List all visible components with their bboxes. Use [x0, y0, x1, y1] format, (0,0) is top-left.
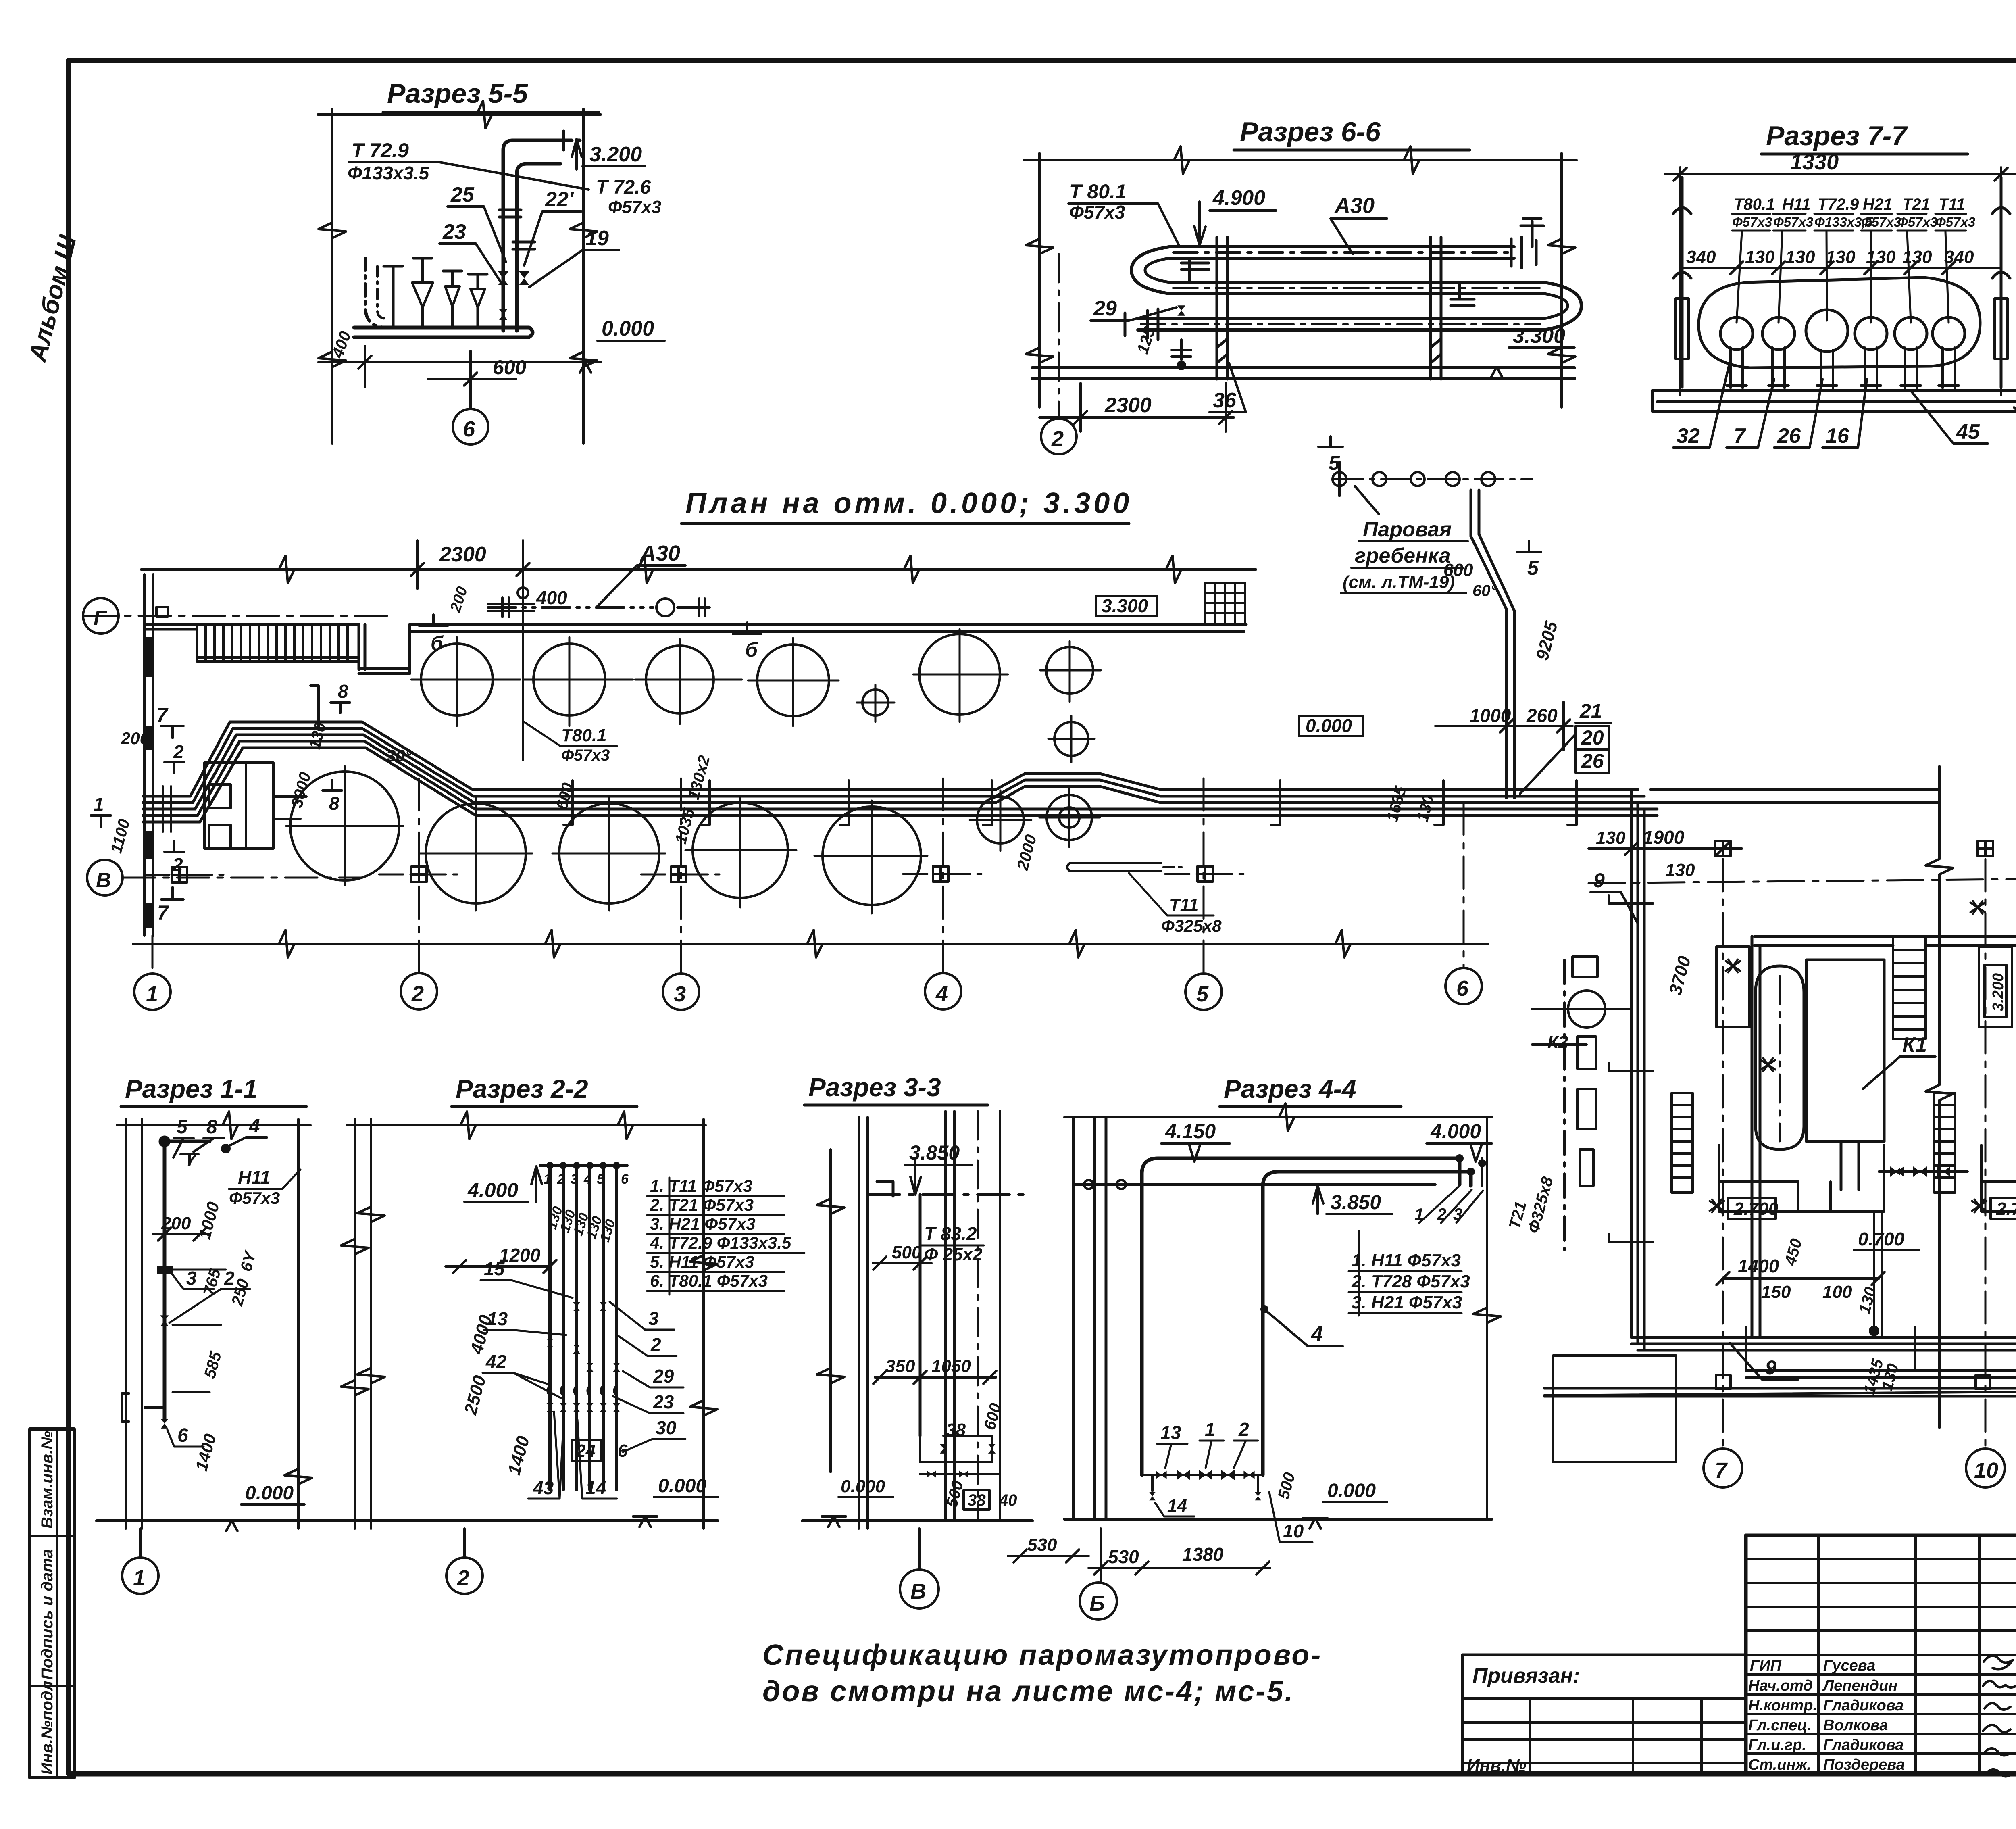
svg-text:2: 2: [557, 1172, 565, 1187]
svg-text:5: 5: [597, 1172, 605, 1187]
svg-text:Ф57х3: Ф57х3: [1897, 215, 1937, 229]
svg-text:4.000: 4.000: [467, 1179, 518, 1201]
svg-text:б: б: [431, 632, 444, 655]
svg-text:8: 8: [329, 793, 339, 814]
svg-text:Разрез 5-5: Разрез 5-5: [387, 78, 528, 109]
svg-text:3.200: 3.200: [1990, 973, 2007, 1011]
svg-text:585: 585: [201, 1349, 225, 1381]
svg-text:4.000: 4.000: [1430, 1120, 1481, 1143]
svg-text:19: 19: [585, 227, 609, 250]
svg-text:6: 6: [1456, 976, 1469, 1001]
svg-text:30°: 30°: [386, 746, 412, 765]
svg-text:0.000: 0.000: [658, 1475, 706, 1497]
svg-text:Ф57х3: Ф57х3: [229, 1189, 280, 1208]
svg-text:7: 7: [156, 704, 169, 726]
svg-text:15: 15: [484, 1258, 505, 1279]
svg-text:Ф57х3: Ф57х3: [561, 747, 610, 764]
svg-text:1050: 1050: [931, 1356, 971, 1376]
title block outline: [1746, 1535, 2016, 1774]
svg-text:38: 38: [968, 1491, 986, 1509]
top wall of plan (3.300 deck edge): [145, 624, 1246, 674]
svg-text:2000: 2000: [1014, 833, 1040, 872]
svg-text:0.000: 0.000: [841, 1477, 885, 1496]
svg-text:13: 13: [487, 1308, 508, 1329]
narrow revision table grid: [1746, 1535, 2016, 1774]
svg-text:1400: 1400: [504, 1434, 533, 1477]
pipe drop s3: [919, 1195, 922, 1436]
bottom leader labels: [1677, 418, 2016, 448]
svg-text:Нач.отд: Нач.отд: [1748, 1677, 1813, 1694]
valves on risers 2-2: [573, 1302, 580, 1311]
svg-text:1330: 1330: [1790, 150, 1839, 174]
svg-text:1. Т11 Ф57х3: 1. Т11 Ф57х3: [650, 1176, 752, 1195]
band support ticks: [310, 686, 1577, 825]
svg-text:Волкова: Волкова: [1823, 1717, 1888, 1734]
svg-text:Т 83.2: Т 83.2: [924, 1223, 977, 1244]
svg-text:4: 4: [249, 1116, 260, 1137]
svg-text:Ф325х8: Ф325х8: [1161, 916, 1222, 935]
svg-text:Ф57х3: Ф57х3: [1935, 215, 1975, 229]
svg-text:4.900: 4.900: [1212, 186, 1265, 210]
heat exchanger pipe run 3 (bottom): [1138, 319, 1544, 330]
leaders from labels to circles: [1737, 232, 1949, 323]
svg-text:2: 2: [411, 982, 424, 1006]
svg-text:43: 43: [533, 1477, 554, 1498]
svg-text:16: 16: [1826, 424, 1849, 448]
svg-text:23: 23: [653, 1391, 674, 1412]
svg-text:Альбом Ш: Альбом Ш: [23, 232, 82, 365]
svg-text:22': 22': [545, 188, 574, 211]
boiler 1 burner valves: [1890, 1168, 1900, 1176]
svg-text:14: 14: [1167, 1496, 1187, 1516]
svg-text:3000: 3000: [288, 770, 314, 809]
standpipe valves on manifold: [384, 258, 487, 327]
svg-text:9: 9: [1593, 869, 1605, 892]
hanger squares row B: [1715, 841, 1731, 856]
ladder hatch left of boiler1: [1672, 1093, 1693, 1193]
svg-text:3: 3: [571, 1172, 578, 1187]
svg-text:450: 450: [1781, 1237, 1806, 1268]
svg-text:Т80.1: Т80.1: [561, 726, 607, 745]
svg-text:7: 7: [186, 1150, 197, 1170]
svg-text:Т21: Т21: [1902, 196, 1930, 213]
svg-text:Подпись и дата: Подпись и дата: [38, 1549, 56, 1680]
grid circle 2: [1058, 254, 1060, 419]
boiler 1 drum: [1756, 966, 1804, 1149]
svg-text:130: 130: [1902, 247, 1932, 267]
manifold oval: [1699, 277, 1980, 368]
side rect with hatch (boiler1): [1716, 947, 1749, 1027]
svg-text:4: 4: [1311, 1322, 1323, 1346]
bottom manifold pipe: [354, 327, 533, 337]
responsible persons rows: [1748, 1657, 1905, 1773]
svg-text:Т11: Т11: [1939, 196, 1965, 213]
svg-text:7: 7: [1734, 424, 1746, 448]
svg-text:350: 350: [885, 1356, 915, 1376]
svg-text:К1: К1: [1902, 1033, 1927, 1057]
svg-text:5: 5: [1196, 982, 1209, 1006]
hanger rods: [1673, 177, 2010, 387]
svg-text:6: 6: [463, 417, 475, 441]
svg-text:3: 3: [186, 1268, 197, 1289]
row A and bottom walls: [1544, 1389, 2016, 1395]
boiler 1 platform: [1719, 1145, 1884, 1212]
svg-text:600: 600: [1443, 560, 1473, 580]
big П pipe: [1142, 1158, 1482, 1475]
svg-text:Разрез 7-7: Разрез 7-7: [1766, 121, 1908, 151]
svg-text:4: 4: [935, 982, 948, 1006]
descending pipe band: [1631, 790, 2016, 1350]
svg-text:7: 7: [1715, 1458, 1728, 1483]
svg-text:Взам.инв.№: Взам.инв.№: [38, 1431, 56, 1529]
svg-text:1400: 1400: [192, 1432, 220, 1473]
svg-text:3. Н21 Ф57х3: 3. Н21 Ф57х3: [1352, 1293, 1462, 1312]
svg-text:38: 38: [946, 1420, 966, 1440]
grid columns 7 10 11: [1723, 859, 2016, 1449]
svg-text:3. Н21 Ф57х3: 3. Н21 Ф57х3: [650, 1214, 756, 1233]
heat exchanger pipe run 1 (top): [1169, 247, 1514, 258]
hanger squares on 0.000 row: [172, 867, 187, 882]
svg-text:8: 8: [206, 1116, 217, 1138]
pipe list table 2-2: [650, 1176, 791, 1290]
svg-text:Разрез 4-4: Разрез 4-4: [1224, 1074, 1356, 1103]
main pipe band across plan: [143, 722, 1657, 822]
svg-text:Гладикова: Гладикова: [1823, 1697, 1904, 1714]
dashed inlet elbow: [365, 258, 386, 327]
svg-text:А30: А30: [639, 541, 680, 565]
svg-text:8: 8: [338, 681, 348, 702]
svg-text:Разрез 6-6: Разрез 6-6: [1240, 117, 1381, 147]
svg-text:3.850: 3.850: [909, 1141, 960, 1164]
svg-text:Т11: Т11: [1169, 895, 1199, 915]
riser to steam manifold: [1471, 490, 1514, 798]
svg-text:340: 340: [1944, 247, 1974, 267]
svg-text:Паровая: Паровая: [1363, 518, 1452, 541]
svg-text:4: 4: [583, 1172, 591, 1187]
floor line at 3.300: [1032, 368, 1574, 378]
six risers: [540, 1166, 627, 1490]
hooks row: [548, 1385, 616, 1396]
svg-text:2: 2: [650, 1334, 661, 1355]
svg-text:Т 72.6: Т 72.6: [596, 177, 651, 198]
side rect with hatch and 3.200 (boiler2): [1979, 947, 2012, 1027]
svg-text:В: В: [910, 1579, 926, 1604]
svg-text:2: 2: [172, 854, 183, 875]
grid circle В s3: [918, 1529, 921, 1570]
svg-text:60°: 60°: [1472, 582, 1497, 600]
svg-text:3.300: 3.300: [1513, 324, 1565, 348]
svg-text:Гладикова: Гладикова: [1823, 1737, 1904, 1754]
svg-text:13: 13: [1160, 1422, 1181, 1443]
bottom header row of valves: [1142, 1474, 1263, 1476]
svg-text:4.150: 4.150: [1165, 1120, 1216, 1143]
svg-text:К2: К2: [1547, 1032, 1568, 1052]
boiler room top wall: [1754, 936, 2016, 945]
svg-text:3.850: 3.850: [1331, 1191, 1381, 1214]
svg-text:2: 2: [1238, 1419, 1249, 1440]
svg-text:130: 130: [1856, 1285, 1880, 1316]
svg-text:6: 6: [618, 1441, 628, 1461]
svg-text:130: 130: [1414, 793, 1438, 824]
bottom dimension line of plan: [133, 943, 1488, 945]
svg-text:1400: 1400: [1738, 1255, 1779, 1276]
svg-text:2: 2: [173, 741, 184, 762]
svg-text:Ф57х3: Ф57х3: [608, 197, 661, 217]
svg-text:Ф57х3: Ф57х3: [1773, 215, 1813, 229]
svg-text:0.000: 0.000: [245, 1483, 294, 1504]
left margin stamp column: [30, 1429, 74, 1778]
svg-text:42: 42: [485, 1351, 507, 1372]
bottom-left outbuilding: [1553, 1356, 1676, 1462]
svg-text:Ф57х3: Ф57х3: [1732, 215, 1772, 229]
grid columns and circles 1..6: [152, 778, 1464, 974]
left U-bend: [1131, 247, 1169, 294]
svg-text:Ф133х3.5: Ф133х3.5: [348, 163, 430, 184]
upper pipe assembly on 3.300: [488, 588, 710, 760]
svg-text:23: 23: [442, 220, 466, 244]
stems to beam: [1727, 348, 1959, 388]
svg-text:В: В: [96, 869, 111, 892]
upper row tanks: [421, 634, 1093, 756]
svg-text:Лепендин: Лепендин: [1822, 1677, 1897, 1694]
svg-text:Т 80.1: Т 80.1: [1069, 180, 1127, 203]
svg-text:5. Н11 Ф57х3: 5. Н11 Ф57х3: [650, 1252, 754, 1271]
svg-text:600: 600: [981, 1401, 1005, 1432]
svg-text:3700: 3700: [1665, 954, 1695, 997]
svg-text:130: 130: [1785, 247, 1815, 267]
svg-text:Спецификацию паромазутопрово-: Спецификацию паромазутопрово-: [762, 1639, 1322, 1671]
svg-text:130: 130: [1665, 860, 1695, 880]
pump room: [204, 763, 306, 849]
left wall and grid rows: [144, 574, 153, 936]
svg-text:10: 10: [1283, 1520, 1304, 1541]
svg-text:2.700: 2.700: [1996, 1199, 2016, 1219]
svg-text:Инв.№подл: Инв.№подл: [38, 1681, 56, 1775]
vertical match line with breaks: [1926, 766, 1953, 1428]
svg-text:Г: Г: [94, 607, 107, 630]
svg-text:Н11: Н11: [1782, 196, 1810, 213]
boxed level 3.300: [1096, 596, 1157, 616]
svg-text:6: 6: [177, 1425, 188, 1446]
heat exchanger pipe run 2 (middle): [1169, 282, 1544, 294]
svg-text:2. Т728 Ф57х3: 2. Т728 Ф57х3: [1351, 1272, 1470, 1291]
Привязан block: [1462, 1655, 1746, 1774]
svg-text:260: 260: [1526, 705, 1558, 726]
svg-text:2.700: 2.700: [1733, 1199, 1779, 1219]
grid circle Б s4: [1100, 1529, 1102, 1583]
tank crosshairs: [411, 629, 1101, 762]
ceiling line 3.850: [1073, 1183, 1435, 1186]
small posts on wall A: [1716, 1375, 2016, 1389]
svg-text:200: 200: [161, 1214, 191, 1233]
dim 2300 and 36: [1039, 383, 1234, 432]
svg-text:1000: 1000: [1470, 705, 1511, 726]
svg-text:1: 1: [146, 982, 158, 1006]
svg-text:1200: 1200: [499, 1245, 541, 1266]
svg-text:29: 29: [1093, 297, 1117, 320]
svg-text:25: 25: [450, 183, 475, 206]
equipment K2 column between sections and boilers: [1532, 957, 1631, 1250]
svg-text:3.200: 3.200: [589, 143, 642, 166]
lower row tanks: [290, 772, 1092, 905]
svg-text:1100: 1100: [107, 817, 133, 855]
svg-text:1000: 1000: [195, 1200, 223, 1241]
svg-text:Ст.инж.: Ст.инж.: [1748, 1756, 1811, 1773]
row В left: [123, 877, 363, 879]
svg-text:Н.контр.: Н.контр.: [1748, 1697, 1817, 1714]
svg-text:36: 36: [1213, 389, 1237, 412]
svg-text:ГИП: ГИП: [1750, 1657, 1782, 1674]
svg-text:Поздерева: Поздерева: [1823, 1756, 1905, 1773]
svg-text:дов смотри на листе мс-4; мс-5: дов смотри на листе мс-4; мс-5.: [762, 1675, 1294, 1708]
svg-text:2. Т21 Ф57х3: 2. Т21 Ф57х3: [650, 1195, 754, 1214]
svg-text:5: 5: [177, 1116, 188, 1138]
svg-text:3: 3: [674, 982, 686, 1006]
svg-text:10: 10: [1974, 1458, 1998, 1483]
svg-text:1380: 1380: [1182, 1544, 1224, 1565]
svg-text:530: 530: [1027, 1535, 1057, 1555]
svg-text:Разрез 1-1: Разрез 1-1: [125, 1074, 258, 1103]
dimension frame: [1024, 153, 1577, 407]
svg-text:400: 400: [536, 587, 567, 608]
svg-text:2500: 2500: [460, 1373, 490, 1417]
svg-text:340: 340: [1686, 247, 1716, 267]
valves on riser 1-1: [157, 1266, 173, 1274]
svg-text:530: 530: [1108, 1546, 1139, 1567]
top stub riser: [1521, 219, 1543, 247]
svg-text:Разрез 3-3: Разрез 3-3: [808, 1073, 941, 1102]
svg-text:29: 29: [653, 1366, 674, 1387]
manifold pipe circles: [1720, 310, 1965, 352]
svg-text:План на отм. 0.000; 3.300: План на отм. 0.000; 3.300: [685, 487, 1132, 519]
svg-text:4. Т72.9 Ф133х3.5: 4. Т72.9 Ф133х3.5: [650, 1233, 791, 1252]
svg-text:Разрез 2-2: Разрез 2-2: [456, 1074, 588, 1103]
signature scribbles: [1983, 1656, 2016, 1776]
svg-text:2300: 2300: [439, 543, 486, 566]
svg-text:1: 1: [1205, 1419, 1215, 1440]
dim row 340 130x5 340: [1686, 247, 1974, 267]
svg-text:Гл.спец.: Гл.спец.: [1748, 1717, 1812, 1734]
boiler 1 downpipes: [1870, 1212, 1882, 1337]
svg-text:9: 9: [1765, 1356, 1776, 1379]
riser pipe T72.9: [503, 140, 585, 331]
svg-text:9205: 9205: [1532, 619, 1562, 663]
svg-text:0.700: 0.700: [1858, 1228, 1905, 1249]
svg-text:0.000: 0.000: [1327, 1480, 1376, 1502]
grid circle 1 s1: [139, 1529, 142, 1558]
svg-text:1900: 1900: [1643, 827, 1685, 848]
svg-text:5: 5: [1527, 557, 1539, 579]
svg-text:б: б: [745, 638, 758, 661]
band support ticks vertical run: [1609, 895, 2016, 1371]
svg-text:7: 7: [157, 901, 169, 924]
T11 pipe: [1067, 863, 1181, 871]
svg-text:20: 20: [1581, 726, 1604, 749]
riser flanges: [499, 131, 564, 249]
svg-text:Ф57х3: Ф57х3: [1861, 215, 1901, 229]
boiler 1 body: [1806, 960, 1884, 1190]
svg-text:2300: 2300: [1104, 394, 1152, 417]
pipe list 4-4: [1351, 1251, 1470, 1312]
svg-text:130: 130: [1745, 247, 1775, 267]
riser pipe 1-1: [160, 1137, 210, 1420]
svg-text:(см. л.ТМ-19): (см. л.ТМ-19): [1343, 572, 1455, 592]
svg-text:Н11: Н11: [238, 1167, 271, 1188]
stair hatch band top-left: [197, 624, 359, 661]
svg-text:А30: А30: [1334, 194, 1375, 218]
svg-text:3.300: 3.300: [1102, 595, 1148, 616]
svg-text:150: 150: [1761, 1282, 1791, 1302]
svg-text:130: 130: [1866, 247, 1896, 267]
top dimension line: [141, 540, 1256, 589]
svg-text:200: 200: [447, 584, 471, 614]
boiler 2 platform: [1981, 1145, 2016, 1212]
flanges on bundle: [1125, 237, 1536, 340]
svg-text:2: 2: [457, 1566, 469, 1590]
svg-text:100: 100: [1822, 1282, 1852, 1302]
svg-text:32: 32: [1677, 424, 1700, 448]
svg-text:1. Н11 Ф57х3: 1. Н11 Ф57х3: [1352, 1251, 1461, 1270]
svg-text:Т 72.9: Т 72.9: [352, 139, 409, 162]
wall verticals: [859, 1111, 1000, 1529]
support beam: [1653, 390, 2016, 411]
svg-text:3: 3: [648, 1308, 659, 1329]
grid circle 6: [469, 351, 472, 409]
24 boxed and 6: [572, 1440, 601, 1461]
boxed level 0.000: [1299, 716, 1363, 736]
bottom elbow 1-1: [122, 1392, 165, 1422]
svg-text:Б: Б: [1089, 1591, 1105, 1616]
svg-text:Н21: Н21: [1863, 196, 1892, 213]
svg-text:Ф 25х2: Ф 25х2: [924, 1245, 983, 1264]
left wall of boiler room: [1752, 936, 1760, 1337]
svg-text:1: 1: [133, 1566, 145, 1590]
svg-text:14: 14: [585, 1477, 606, 1498]
svg-text:600: 600: [493, 356, 527, 379]
bottom piping s3: [920, 1436, 1000, 1474]
row B dashed line: [1589, 876, 2016, 883]
vertical supports: [1217, 237, 1441, 379]
svg-text:1: 1: [544, 1172, 551, 1187]
svg-text:0.000: 0.000: [602, 317, 654, 340]
svg-text:26: 26: [1777, 424, 1801, 448]
svg-text:500: 500: [1275, 1470, 1299, 1501]
svg-text:45: 45: [1956, 420, 1980, 444]
svg-text:6: 6: [621, 1172, 629, 1187]
svg-text:30: 30: [656, 1417, 677, 1438]
svg-text:6. Т80.1 Ф57х3: 6. Т80.1 Ф57х3: [650, 1271, 768, 1290]
svg-text:0.000: 0.000: [1306, 715, 1352, 736]
dimension frame lines: [318, 109, 601, 444]
steam manifold (парогребенка): [1333, 462, 1532, 496]
svg-text:Гусева: Гусева: [1823, 1657, 1875, 1674]
svg-text:2: 2: [1051, 427, 1064, 451]
svg-text:500: 500: [892, 1243, 922, 1262]
row Г: [85, 615, 395, 617]
ladder hatch left of boiler2: [1934, 1093, 1955, 1193]
svg-text:765: 765: [200, 1267, 224, 1298]
svg-text:21: 21: [1579, 700, 1602, 722]
svg-text:Т80.1: Т80.1: [1734, 196, 1775, 213]
svg-text:6Y: 6Y: [237, 1248, 260, 1273]
svg-text:Инв.№: Инв.№: [1467, 1756, 1526, 1775]
svg-text:Гл.и.гр.: Гл.и.гр.: [1748, 1737, 1806, 1754]
svg-text:1: 1: [94, 794, 104, 815]
hook on wall: [877, 1182, 893, 1196]
svg-text:2: 2: [1437, 1205, 1446, 1224]
svg-text:130: 130: [1596, 828, 1626, 848]
svg-text:5: 5: [1329, 452, 1340, 474]
